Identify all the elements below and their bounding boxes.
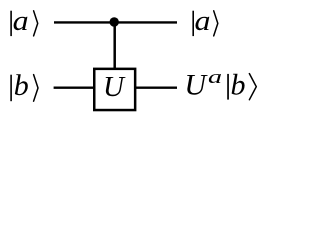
wire : top qubit wire	[54, 21, 177, 23]
wire : bottom qubit wire	[54, 86, 177, 88]
svg-text:U: U	[103, 71, 126, 103]
node a-out : ket |a> output label, top-right	[192, 6, 217, 37]
svg-text:b: b	[14, 69, 29, 102]
svg-text:a: a	[208, 67, 222, 88]
svg-text:U: U	[184, 69, 208, 102]
control dot on qubit a	[110, 17, 119, 26]
svg-text:b: b	[231, 69, 246, 102]
wire : vertical control link	[113, 22, 116, 70]
svg-text:a: a	[195, 6, 211, 37]
node b-out : U^a ket |b> output label, bottom-right	[184, 67, 256, 102]
node b-in : ket |b> input label, bottom-left	[10, 69, 38, 102]
svg-text:a: a	[13, 6, 29, 37]
node a-in : ket |a> input label, top-left	[10, 6, 37, 37]
gate U1 : controlled-U gate box	[94, 69, 135, 110]
